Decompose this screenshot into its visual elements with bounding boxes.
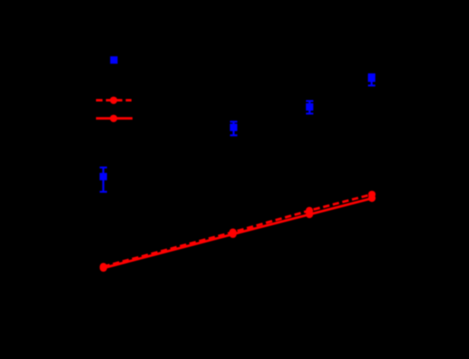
blue error bar 1 stem (102, 168, 104, 192)
blue error bar 2 top cap (230, 121, 237, 123)
blue error bar 3 top cap (306, 100, 313, 102)
legend blue square marker (110, 56, 117, 63)
red dashed data line (103, 194, 372, 266)
blue square marker 4 (368, 75, 375, 82)
red solid-series marker 1 (100, 264, 107, 271)
blue square marker 2 (230, 124, 237, 131)
red dashed-series marker 4 (368, 191, 375, 198)
blue error bar 1 bottom cap (100, 191, 107, 193)
legend red solid line (96, 117, 133, 120)
red solid data line (103, 198, 372, 268)
legend red dashed line (96, 99, 132, 102)
blue error bar 3 bottom cap (306, 113, 313, 115)
blue error bar 3 stem (309, 101, 311, 114)
legend red dashed-line circle marker (110, 97, 117, 104)
red solid-series marker 2 (229, 231, 236, 238)
blue error bar 2 bottom cap (230, 134, 237, 136)
red dashed-series marker 3 (306, 207, 313, 214)
blue error bar 2 stem (233, 122, 235, 136)
red solid-series marker 4 (368, 195, 375, 202)
red solid-series marker 3 (306, 211, 313, 218)
blue square marker 3 (306, 103, 313, 110)
blue square marker 1 (100, 173, 107, 180)
legend red solid-line circle marker (110, 115, 117, 122)
blue error bar 4 stem (371, 74, 373, 85)
blue error bar 1 top cap (100, 167, 107, 169)
blue error bar 4 bottom cap (368, 85, 375, 87)
blue error bar 4 top cap (368, 73, 375, 75)
red dashed-series marker 1 (100, 263, 107, 270)
red dashed-series marker 2 (229, 229, 236, 236)
